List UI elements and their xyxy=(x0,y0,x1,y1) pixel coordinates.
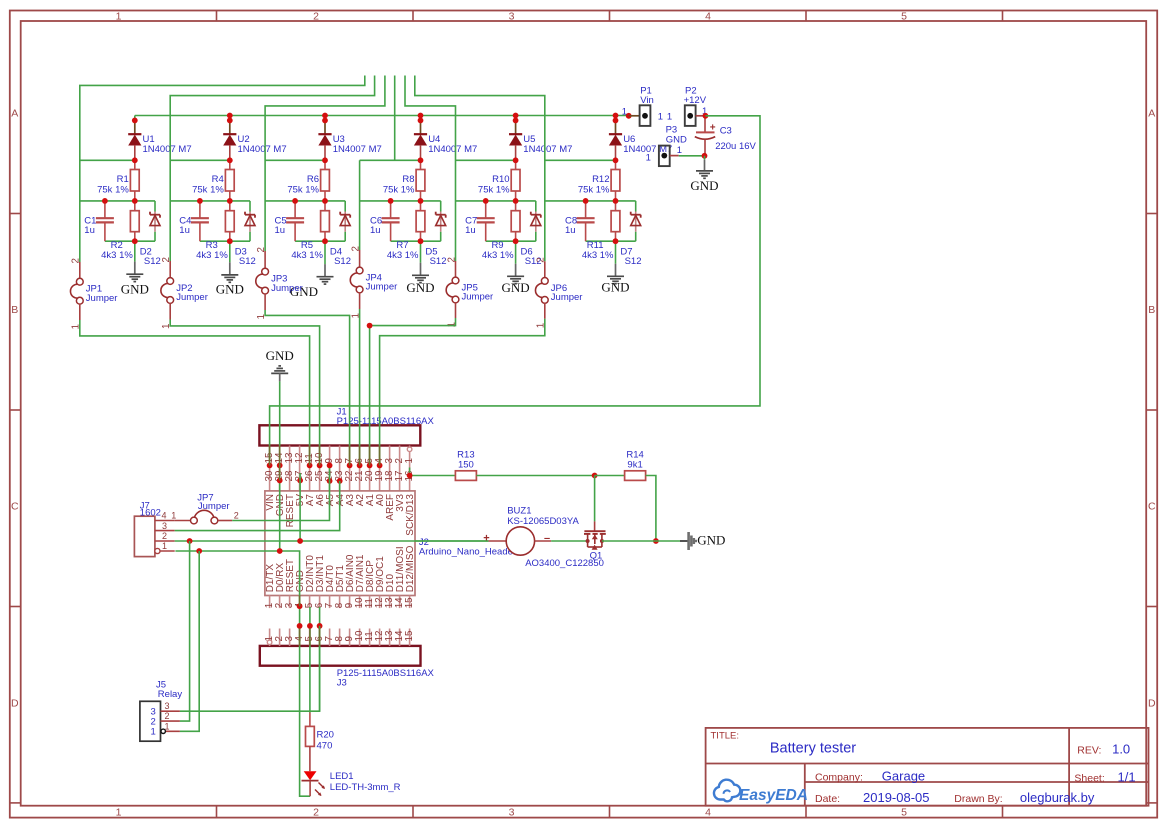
capacitor C4 1u xyxy=(179,201,209,241)
wire GND rail to J7 xyxy=(175,551,299,606)
svg-text:75k 1%: 75k 1% xyxy=(578,184,610,195)
ground mid (to J1 pin 14) xyxy=(266,348,294,551)
jumper JP6 xyxy=(535,257,582,328)
resistor R11 4k3 xyxy=(582,201,620,261)
diode U6 1N4007 xyxy=(609,116,672,161)
svg-text:1: 1 xyxy=(151,727,156,738)
svg-text:1u: 1u xyxy=(565,225,576,236)
wire JP5 to J1 xyxy=(370,318,456,465)
svg-text:2: 2 xyxy=(313,806,319,818)
svg-text:1: 1 xyxy=(162,541,167,551)
wire channel 6 bypass feed xyxy=(415,76,616,262)
wire A5 to J7 via JP7 xyxy=(232,465,329,520)
zener diode D4 S12 xyxy=(330,201,351,267)
svg-text:9k1: 9k1 xyxy=(627,460,642,471)
svg-text:Jumper: Jumper xyxy=(86,293,118,304)
svg-text:D: D xyxy=(11,698,19,710)
resistor R7 4k3 xyxy=(387,201,425,261)
svg-text:1: 1 xyxy=(171,511,176,521)
wire A4 to J7 xyxy=(175,481,340,531)
jumper JP2 xyxy=(161,257,208,329)
svg-text:R8: R8 xyxy=(402,174,414,185)
svg-text:A: A xyxy=(11,108,18,120)
svg-text:1: 1 xyxy=(116,806,122,818)
jumper JP7 xyxy=(171,493,239,524)
wire D13 to R13 xyxy=(407,468,456,479)
zener diode D5 S12 xyxy=(425,201,446,267)
svg-text:2: 2 xyxy=(536,257,547,262)
diode U2 1N4007 xyxy=(223,116,286,161)
pin overlap tint on connector stubs xyxy=(270,446,380,646)
wire channel 2 bypass feed xyxy=(170,76,374,262)
svg-text:1u: 1u xyxy=(179,225,190,236)
svg-text:150: 150 xyxy=(458,460,474,471)
svg-text:4k3 1%: 4k3 1% xyxy=(582,250,614,261)
svg-text:1/1: 1/1 xyxy=(1118,769,1136,784)
svg-text:Garage: Garage xyxy=(882,769,925,784)
svg-text:4k3 1%: 4k3 1% xyxy=(291,250,323,261)
svg-text:3: 3 xyxy=(162,521,167,531)
wire channel 3 bypass feed xyxy=(265,76,385,252)
svg-text:2: 2 xyxy=(350,246,361,251)
svg-text:KS-12065D03YA: KS-12065D03YA xyxy=(507,516,579,527)
svg-text:+: + xyxy=(710,123,716,134)
svg-text:–: – xyxy=(544,533,550,545)
junction dots Vin bus and diode pins xyxy=(102,113,632,245)
svg-text:3: 3 xyxy=(509,806,515,818)
svg-text:S12: S12 xyxy=(239,256,256,267)
svg-text:2: 2 xyxy=(313,10,319,22)
resistor R2 4k3 xyxy=(101,201,139,261)
jumper JP3 xyxy=(256,247,303,319)
wire R14 to source/GND xyxy=(646,476,680,544)
svg-text:75k 1%: 75k 1% xyxy=(478,184,510,195)
svg-text:R10: R10 xyxy=(492,174,509,185)
resistor R5 4k3 xyxy=(291,201,329,261)
svg-text:75k 1%: 75k 1% xyxy=(383,184,415,195)
resistor R3 4k3 xyxy=(196,201,234,261)
jumper JP5 xyxy=(446,257,493,327)
ground channel 5 xyxy=(502,241,530,295)
svg-text:1: 1 xyxy=(622,107,627,118)
svg-text:+: + xyxy=(483,533,489,545)
svg-text:TITLE:: TITLE: xyxy=(711,731,740,742)
wire channel 5 node rails xyxy=(456,201,536,241)
svg-text:Arduino_Nano_Header: Arduino_Nano_Header xyxy=(419,547,516,558)
LED LED1 xyxy=(302,771,401,796)
svg-text:Relay: Relay xyxy=(158,689,183,700)
svg-text:Sheet:: Sheet: xyxy=(1074,772,1104,784)
wire channel 5 bypass feed xyxy=(405,76,516,262)
svg-text:2: 2 xyxy=(234,511,239,521)
ground right (power flag) xyxy=(680,532,725,550)
wire P3 to C3 node xyxy=(679,155,704,157)
svg-text:GND: GND xyxy=(266,348,294,363)
diode U3 1N4007 xyxy=(318,116,381,161)
diode U5 1N4007 xyxy=(509,116,572,161)
svg-text:2: 2 xyxy=(71,258,82,263)
header P3 GND xyxy=(646,125,687,166)
wire channel 1 node rails xyxy=(80,201,155,241)
svg-text:2: 2 xyxy=(256,247,267,252)
ground channel 4 xyxy=(406,241,434,295)
wire 5V rail xyxy=(175,473,489,541)
svg-text:1: 1 xyxy=(116,10,122,22)
wire GND column J2 pin4 to LED return xyxy=(300,606,311,796)
junction dot JP5 corner xyxy=(367,323,373,329)
svg-text:1: 1 xyxy=(165,721,170,731)
svg-text:1N4007 M7: 1N4007 M7 xyxy=(238,144,287,155)
svg-text:D12/MISO: D12/MISO xyxy=(405,545,416,592)
svg-text:1: 1 xyxy=(658,112,663,123)
wire D2 column to R20 xyxy=(309,607,311,713)
connector J3 P125-1115A0BS116AX xyxy=(260,629,435,689)
svg-text:470: 470 xyxy=(317,741,333,752)
capacitor C1 1u xyxy=(84,201,114,241)
svg-text:Company:: Company: xyxy=(815,772,863,784)
svg-text:C: C xyxy=(1148,501,1156,513)
svg-text:LED-TH-3mm_R: LED-TH-3mm_R xyxy=(330,782,401,793)
capacitor C7 1u xyxy=(465,201,495,241)
svg-text:75k 1%: 75k 1% xyxy=(192,184,224,195)
jumper JP4 xyxy=(350,246,397,318)
connector J5 Relay xyxy=(140,680,182,742)
svg-text:2: 2 xyxy=(162,531,167,541)
svg-text:S12: S12 xyxy=(334,256,351,267)
EasyEDA logo xyxy=(714,780,808,804)
svg-text:4k3 1%: 4k3 1% xyxy=(387,250,419,261)
wire JP1 to J1 xyxy=(80,320,310,465)
svg-text:D: D xyxy=(1148,698,1156,710)
svg-text:4: 4 xyxy=(705,806,711,818)
svg-text:4k3 1%: 4k3 1% xyxy=(196,250,228,261)
svg-text:S12: S12 xyxy=(144,256,161,267)
svg-text:SCK/D13: SCK/D13 xyxy=(405,494,416,536)
resistor R9 4k3 xyxy=(482,201,520,261)
svg-text:J3: J3 xyxy=(337,678,347,689)
wire channel 3 node rails xyxy=(265,201,345,241)
svg-text:5: 5 xyxy=(901,10,907,22)
diode U4 1N4007 xyxy=(414,116,477,161)
wire JP2 to J1 xyxy=(170,320,319,466)
svg-text:EasyEDA: EasyEDA xyxy=(739,787,808,804)
resistor R20 470 xyxy=(306,713,334,772)
svg-text:2019-08-05: 2019-08-05 xyxy=(863,790,930,805)
svg-text:C: C xyxy=(11,501,19,513)
resistor R13 150 xyxy=(455,450,476,481)
svg-text:Jumper: Jumper xyxy=(198,501,230,512)
svg-text:R1: R1 xyxy=(117,174,129,185)
wire channel 4 bypass feed xyxy=(360,76,421,251)
wire relay pin2 to 5V xyxy=(180,541,190,721)
svg-text:4: 4 xyxy=(162,511,167,521)
connector J1 P125-1115A0BS116AX xyxy=(259,406,434,491)
junction dots P2/C3 xyxy=(702,113,709,159)
svg-text:4: 4 xyxy=(705,10,711,22)
zener diode D7 S12 xyxy=(620,201,641,267)
header P2 +12V xyxy=(667,86,707,126)
svg-text:1N4007 M7: 1N4007 M7 xyxy=(333,144,382,155)
svg-text:Vin: Vin xyxy=(640,95,654,106)
header P1 Vin xyxy=(622,86,663,126)
svg-text:R12: R12 xyxy=(592,174,609,185)
svg-text:1u: 1u xyxy=(84,225,95,236)
connector J2 Arduino_Nano_Header xyxy=(264,470,516,608)
capacitor C5 1u xyxy=(275,201,305,241)
svg-text:15: 15 xyxy=(404,597,415,608)
svg-text:GND: GND xyxy=(121,282,149,297)
resistor R10 75k xyxy=(478,160,520,201)
capacitor C6 1u xyxy=(370,201,400,241)
title block xyxy=(706,728,1149,806)
zener diode D3 S12 xyxy=(235,201,256,267)
zener diode D6 S12 xyxy=(521,201,542,267)
svg-text:3: 3 xyxy=(165,701,170,711)
junction dots 5V/GND rails xyxy=(187,538,303,554)
ground channel 6 xyxy=(601,241,629,294)
wire JP3 to J1 xyxy=(265,310,350,465)
svg-text:S12: S12 xyxy=(625,256,642,267)
svg-text:1: 1 xyxy=(404,458,415,463)
svg-text:75k 1%: 75k 1% xyxy=(287,184,319,195)
svg-text:2: 2 xyxy=(165,711,170,721)
resistor R12 75k xyxy=(578,160,620,201)
svg-text:C3: C3 xyxy=(720,126,732,137)
svg-text:Jumper: Jumper xyxy=(366,282,398,293)
ground channel 2 xyxy=(216,241,244,296)
wire D3 column to relay xyxy=(319,607,321,711)
wire relay pin3 to D3 xyxy=(180,626,320,711)
svg-text:B: B xyxy=(11,304,18,316)
wire R13 to gate node xyxy=(476,473,597,522)
zener diode D2 S12 xyxy=(140,201,161,267)
svg-text:1: 1 xyxy=(646,153,651,164)
svg-text:GND: GND xyxy=(502,280,530,295)
ground channel 1 xyxy=(121,241,149,296)
svg-text:4k3 1%: 4k3 1% xyxy=(101,250,133,261)
svg-text:GND: GND xyxy=(601,280,629,295)
svg-text:P125-1115A0BS116AX: P125-1115A0BS116AX xyxy=(337,416,435,427)
svg-text:GND: GND xyxy=(697,533,725,548)
resistor R6 75k xyxy=(287,160,329,201)
wire relay pin1 to GND xyxy=(180,551,199,731)
svg-text:Jumper: Jumper xyxy=(271,283,303,294)
svg-text:1.0: 1.0 xyxy=(1112,742,1130,757)
diode U1 1N4007 xyxy=(128,116,191,161)
svg-text:1: 1 xyxy=(677,145,682,156)
svg-text:AO3400_C122850: AO3400_C122850 xyxy=(525,558,604,569)
svg-text:2: 2 xyxy=(161,257,172,262)
svg-text:1N4007 M7: 1N4007 M7 xyxy=(523,144,572,155)
svg-text:A: A xyxy=(1148,108,1155,120)
svg-text:Date:: Date: xyxy=(815,793,840,805)
ground below C3 xyxy=(690,156,718,193)
svg-text:GND: GND xyxy=(666,135,687,146)
svg-text:1: 1 xyxy=(667,112,672,123)
connector J7 1602 xyxy=(134,501,174,557)
svg-text:1u: 1u xyxy=(370,225,381,236)
wire channel 4 node rails xyxy=(360,201,441,241)
wire channel 2 node rails xyxy=(170,201,250,241)
svg-text:LED1: LED1 xyxy=(330,771,354,782)
svg-text:4k3 1%: 4k3 1% xyxy=(482,250,514,261)
svg-text:Jumper: Jumper xyxy=(176,292,208,303)
wire Vin bus xyxy=(135,115,629,117)
resistor R4 75k xyxy=(192,160,234,201)
buzzer BUZ1 KS-12065D03YA xyxy=(415,506,580,556)
svg-text:1u: 1u xyxy=(465,225,476,236)
junction dots J3 pins xyxy=(297,603,323,629)
svg-text:Jumper: Jumper xyxy=(551,292,583,303)
wire +12V loop to J1 pin 15 xyxy=(270,116,760,466)
svg-text:1N4007 M7: 1N4007 M7 xyxy=(428,144,477,155)
wire channel 6 node rails xyxy=(545,201,636,241)
capacitor C8 1u xyxy=(565,201,595,241)
svg-text:REV:: REV: xyxy=(1077,745,1101,757)
svg-text:1N4007 M7: 1N4007 M7 xyxy=(143,144,192,155)
wire GND to J1 pin 14 xyxy=(279,381,281,551)
resistor R14 9k1 xyxy=(595,450,646,481)
junction dots J2 top pins xyxy=(277,478,343,484)
capacitor C3 220u xyxy=(695,116,757,156)
svg-text:Jumper: Jumper xyxy=(462,292,494,303)
svg-text:15: 15 xyxy=(404,630,415,641)
svg-text:R20: R20 xyxy=(317,730,334,741)
svg-text:B: B xyxy=(1148,304,1155,316)
svg-text:3: 3 xyxy=(509,10,515,22)
svg-text:P125-1115A0BS116AX: P125-1115A0BS116AX xyxy=(337,668,435,679)
svg-text:+12V: +12V xyxy=(684,95,707,106)
junction dots J1 pins xyxy=(267,463,383,469)
svg-text:5: 5 xyxy=(901,806,907,818)
svg-text:2: 2 xyxy=(446,257,457,262)
svg-text:olegburak.by: olegburak.by xyxy=(1020,790,1095,805)
resistor R1 75k xyxy=(97,160,139,201)
svg-text:220u 16V: 220u 16V xyxy=(715,141,756,152)
svg-text:GND: GND xyxy=(406,280,434,295)
resistor R8 75k xyxy=(383,160,425,201)
wire Q1 to GND xyxy=(602,540,656,542)
wire JP6 to J1 xyxy=(380,319,545,466)
svg-text:R6: R6 xyxy=(307,174,319,185)
svg-text:1u: 1u xyxy=(275,225,286,236)
jumper JP1 xyxy=(70,258,117,329)
ground channel 3 xyxy=(290,241,334,299)
svg-text:S12: S12 xyxy=(430,256,447,267)
wire BUZ1 to Q1 xyxy=(551,540,586,542)
svg-text:75k 1%: 75k 1% xyxy=(97,184,129,195)
transistor Q1 AO3400 xyxy=(525,521,606,569)
wire channel 1 bypass feed xyxy=(80,76,365,263)
svg-text:GND: GND xyxy=(690,178,718,193)
svg-text:Battery tester: Battery tester xyxy=(770,741,856,757)
svg-text:Drawn By:: Drawn By: xyxy=(954,793,1002,805)
wire JP4 to J1 xyxy=(359,309,361,465)
svg-text:R4: R4 xyxy=(212,174,224,185)
svg-text:1602: 1602 xyxy=(140,508,161,519)
svg-text:GND: GND xyxy=(216,281,244,296)
